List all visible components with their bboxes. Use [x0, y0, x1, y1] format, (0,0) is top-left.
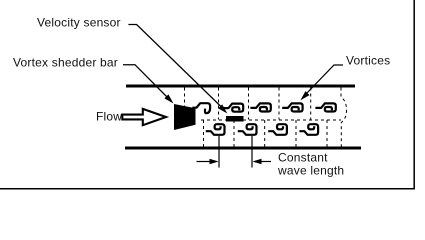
arrowhead shedder bar leader — [164, 94, 173, 103]
dashed cell boundary top 3 — [248, 88, 250, 120]
dashed cell boundary bottom 4 — [295, 120, 297, 147]
dimension extension line right — [251, 136, 253, 168]
pipe wall bottom — [125, 147, 361, 150]
leader to shedder bar — [123, 65, 169, 99]
pipe wall top — [126, 85, 355, 88]
svg-text:Vortex shedder bar: Vortex shedder bar — [13, 56, 118, 70]
dashed cell boundary bottom 3 — [264, 120, 266, 147]
svg-text:Flow: Flow — [96, 110, 122, 124]
dashed cell boundary right (curved) — [341, 88, 347, 147]
dimension extension line left — [218, 136, 220, 168]
dashed cell boundary bottom 1 — [203, 120, 205, 147]
vortex bottom 4 — [301, 124, 319, 135]
vortex bottom 2 — [239, 124, 257, 135]
flow arrow (hollow) — [122, 109, 166, 125]
leader to velocity sensor — [128, 25, 223, 109]
leader to vortices — [305, 65, 343, 95]
dashed cell boundary bottom 2 — [233, 120, 235, 147]
dashed grid: mid horizontal line — [201, 119, 341, 121]
vortex top 3 — [252, 103, 271, 111]
dashed cell boundary top 4 — [278, 88, 280, 120]
frame (figure box, bottom-right corner) — [0, 0, 414, 189]
vortex top 4 — [283, 103, 302, 111]
velocity sensor (black block) — [226, 116, 244, 122]
svg-text:Velocity sensor: Velocity sensor — [37, 16, 121, 30]
dashed cell boundary top 1 — [184, 88, 186, 120]
vortex top 2 — [224, 104, 243, 112]
dashed cell boundary top 5 — [310, 88, 312, 120]
vortex bottom 3 — [269, 124, 287, 135]
arrowhead velocity sensor leader — [218, 104, 227, 113]
arrowhead vortices leader — [300, 91, 309, 100]
dashed cell boundary bottom 5 — [326, 120, 328, 147]
vortex shedder bar (trapezoid bluff body) — [174, 104, 196, 130]
svg-text:Vortices: Vortices — [346, 54, 390, 68]
dashed cell boundary top 2 — [218, 88, 220, 120]
dimension arrow left (points right) — [197, 161, 212, 163]
dimension arrow right (points left) — [260, 161, 272, 163]
vortex top 5 — [317, 103, 336, 111]
svg-text:wave length: wave length — [277, 163, 344, 177]
vortex top 1 — [193, 103, 210, 113]
vortex bottom 1 — [207, 124, 225, 135]
